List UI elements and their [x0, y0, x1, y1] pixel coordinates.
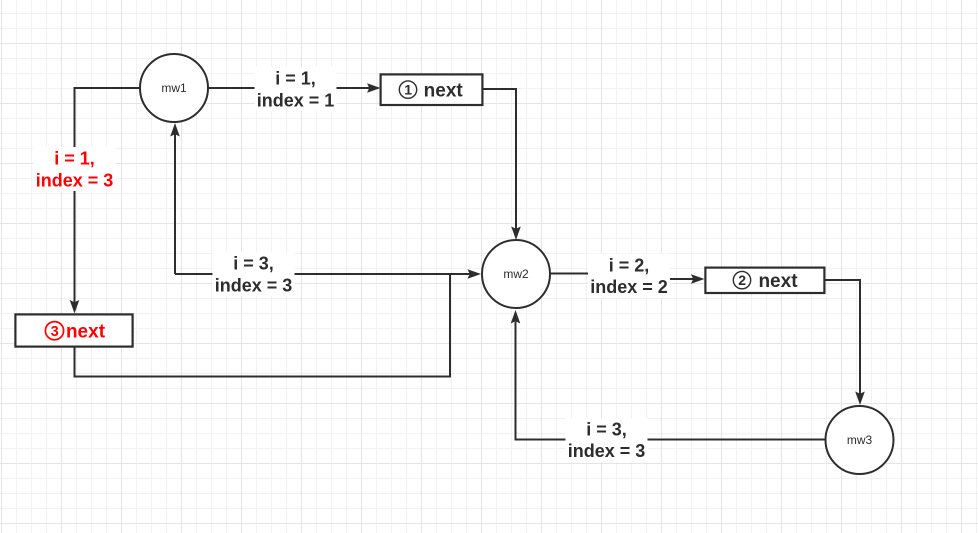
label i=3 index=3 middle — [213, 252, 295, 296]
svg-text:mw3: mw3 — [847, 433, 873, 447]
svg-text:i = 3,: i = 3, — [586, 420, 627, 440]
wire up into mw1 bottom — [174, 134, 176, 274]
wire next3 box down right and up joining mw2 wire — [75, 274, 451, 377]
arrowhead into next1 box — [367, 83, 381, 93]
wire mw2 right to next2 box — [550, 274, 694, 280]
svg-text:3: 3 — [51, 324, 59, 340]
svg-text:i = 1,: i = 1, — [54, 149, 95, 169]
arrowhead into mw3 top — [855, 392, 865, 406]
label i=2 index=2 — [588, 254, 670, 298]
arrowhead into mw2 left — [468, 269, 482, 279]
svg-text:index = 3: index = 3 — [568, 441, 646, 461]
box next1 — [381, 74, 483, 105]
svg-text:next: next — [758, 271, 798, 292]
label i=3 index=3 bottom — [566, 418, 648, 462]
box next3 — [15, 314, 132, 346]
arrowhead into next2 box — [691, 274, 705, 284]
svg-text:i = 3,: i = 3, — [233, 254, 274, 274]
wire next1 box right and down to mw2 top — [483, 89, 517, 229]
node mw3 circle — [826, 406, 894, 474]
wire horizontal into mw2 left — [175, 273, 470, 275]
svg-text:index = 2: index = 2 — [590, 277, 668, 297]
arrowhead into mw2 top — [511, 227, 521, 241]
label i=1 index=1 — [255, 67, 337, 111]
label i=1 index=3 red — [34, 147, 116, 191]
svg-text:2: 2 — [738, 272, 746, 288]
arrowhead into mw2 bottom — [511, 310, 521, 324]
arrowhead into mw1 bottom — [170, 123, 180, 137]
svg-text:index = 3: index = 3 — [215, 275, 293, 295]
wire mw1 left and down to next3 box — [75, 88, 141, 303]
svg-text:index = 1: index = 1 — [257, 90, 335, 110]
node mw1 circle — [140, 54, 208, 122]
svg-text:mw2: mw2 — [503, 267, 529, 281]
svg-text:i = 1,: i = 1, — [275, 69, 316, 89]
wire next2 box right and down to mw3 top — [826, 280, 861, 394]
node mw2 circle — [482, 240, 550, 308]
svg-text:next: next — [66, 322, 106, 343]
wire mw1 right to next1 box — [208, 87, 370, 89]
svg-text:mw1: mw1 — [161, 81, 187, 95]
wire mw3 left and up into mw2 bottom — [516, 322, 825, 440]
svg-text:next: next — [424, 80, 464, 101]
svg-text:i = 2,: i = 2, — [609, 255, 650, 275]
arrowhead into next3 box — [70, 300, 80, 314]
svg-text:index = 3: index = 3 — [36, 170, 114, 190]
svg-text:1: 1 — [404, 82, 412, 98]
box next2 — [705, 268, 824, 293]
